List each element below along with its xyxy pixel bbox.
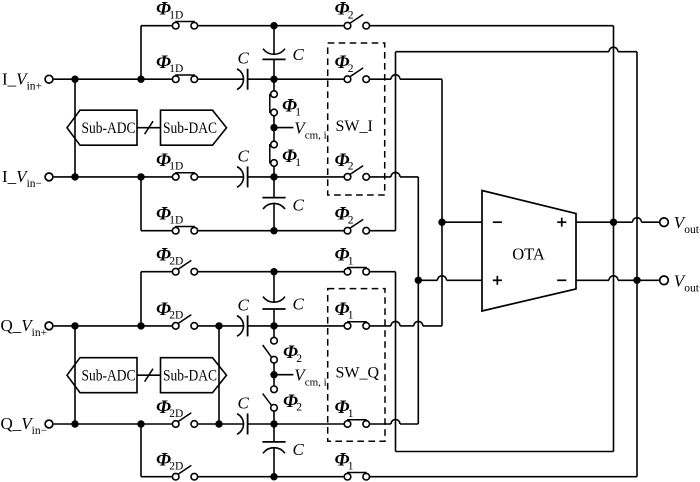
box SW_I (dashed) [328,43,385,195]
switch Φ1 S14 (SW_Q top, closed) [347,321,367,323]
wire vertical I_Vin+ to I_Vin- (ADC input) [74,79,76,177]
node I_Vin- summing [270,173,277,180]
svg-text:Sub-ADC: Sub-ADC [82,367,136,384]
svg-text:I_Vin−: I_Vin− [2,167,42,190]
svg-text:SW_Q: SW_Q [336,365,380,382]
switch Φ1D S9 (I rail4, closed) [175,226,195,228]
wire C4 bottom lead [273,203,275,230]
svg-text:1: 1 [295,106,301,118]
node Q rail1 / C5 junction [270,268,277,275]
svg-text:1: 1 [295,157,301,169]
node I_Vin+ summing [270,76,277,83]
switch Φ2 S16 (Q Vcm lower, open) [263,394,272,406]
svg-text:C: C [293,45,305,64]
wire Vout+ vertical [613,26,615,452]
bus slash (I) [145,121,153,134]
block Sub-DAC (I) [161,110,227,145]
terminal Vout- [660,276,669,285]
hop row2 over Vout+ vertical [609,47,618,52]
svg-text:1D: 1D [169,10,183,22]
node Q_Vin- / rail4 branch [137,420,144,427]
switch Φ1 S20 (Q rail4, closed) [347,472,367,474]
svg-text:2: 2 [348,161,354,173]
capacitor C4 (I- shunt) [263,203,285,209]
node Q_Vin- / DAC branch [215,420,222,427]
node Q_Vin+ / rail1 branch [137,322,144,329]
switch Φ2 S15 (Q Vcm upper, open) [263,345,272,357]
terminal Q_Vin- [45,420,53,428]
box SW_Q (dashed) [328,289,385,442]
wire Vcm,i stub (I) [274,127,293,129]
svg-text:SW_I: SW_I [336,118,373,135]
node I_Vin+ / Sub-ADC tap [71,76,78,83]
wire OTA noninverting input [418,279,437,281]
svg-text:2: 2 [348,10,354,22]
switch Φ2 S10 (I rail4, open) [350,219,363,228]
svg-text:Vout+: Vout+ [674,213,700,236]
svg-text:1: 1 [348,408,354,420]
switch Φ2D S17 (Q_Vin- row, open) [178,413,191,422]
node Q_Vin+ / ADC tap [71,322,78,329]
wire I_Vin+ row [54,78,172,80]
capacitor C1 (I+ shunt) [263,49,285,55]
node Vcm,i (I) [270,124,277,131]
symbol plus (OTA in+) [493,279,502,281]
svg-text:2D: 2D [169,256,183,268]
node I rail1 / C1 junction [270,22,277,29]
wire Q_Vin- row [54,423,172,425]
switch Φ1D S1 (I rail1, closed) [175,21,195,23]
capacitor C3 (I- series) [237,167,244,188]
block Sub-ADC (I) [67,110,137,145]
switch Φ2 S2 (I rail1, open) [350,14,363,23]
node OTA in+ junction [415,277,422,284]
wire C8 bottom lead [273,448,275,477]
capacitor C7 (Q- series) [237,414,244,435]
node Q_Vin+ / DAC branch [215,322,222,329]
wire vertical C (I_Vin- to Q_Vin-) [417,177,419,424]
switch Φ1 S18 (SW_Q bottom, closed) [347,419,367,421]
wire Q rail4 [141,476,172,478]
switch Φ2 S4 (SW_I top, open) [350,68,363,77]
wire Q rail1 (top feedback rail) [141,271,172,273]
hop Q_Vin- row over vertical A [391,420,400,425]
node Q_Vin- summing [270,420,277,427]
wire C4 top lead [273,177,275,198]
switch Φ2D S11 (Q rail1, open) [178,260,191,269]
svg-text:1: 1 [348,310,354,322]
wire Vout- line [576,279,609,281]
capacitor C2 (I+ series) [237,69,244,90]
hop Vout- line over Vout+ vertical [609,276,618,281]
wire routing Vout+ bottom [396,451,614,453]
wire Sub-ADC to Sub-DAC bus (I) [137,127,161,129]
node Vout- junction [633,277,640,284]
wire vertical from I rail1 to I_Vin+ node [140,26,142,79]
symbol minus (OTA in-) [493,221,502,223]
svg-text:C: C [293,196,305,215]
wire C5 bottom lead [273,309,275,326]
svg-text:C: C [238,49,250,68]
wire C1 top lead [273,26,275,54]
node Q_Vin- / ADC tap [71,420,78,427]
wire Q Vcm chain segments [273,326,275,338]
switch Φ1 S6 (I Vcm lower, closed) [269,144,271,164]
wire I rail4 [141,230,172,232]
switch Φ2 S8 (SW_I bottom, open) [350,166,363,175]
wire I_Vin- row [54,176,172,178]
switch Φ1D S7 (I_Vin- row, closed) [175,172,195,174]
wire I rail1 (top feedback rail) [141,25,172,27]
wire Sub-DAC output vertical (Q) [218,326,220,424]
svg-text:Sub-DAC: Sub-DAC [163,367,217,384]
node Vcm,i (Q) [270,371,277,378]
node Q rail4 / C8 junction [270,473,277,480]
node Q_Vin+ summing [270,322,277,329]
node OTA in- junction [438,219,445,226]
symbol plus (OTA out+) [557,221,566,223]
node I_Vin- / rail4 branch [137,173,144,180]
svg-text:C: C [293,295,305,314]
capacitor C6 (Q+ series) [237,316,244,337]
switch Φ1D S3 (I_Vin+ row, closed) [175,74,195,76]
wire I Vcm chain segments [273,79,275,91]
wire vertical Q_Vin- to rail4 [140,424,142,477]
terminal Q_Vin+ [45,322,53,330]
wire C1 bottom lead [273,59,275,79]
wire Vout+ line [576,221,633,223]
svg-text:2: 2 [296,402,302,414]
hop OTA in+ wire over vertical B [438,276,447,281]
svg-text:C: C [238,146,250,165]
wire vertical A lower (Q rail1 to routing) [395,272,397,452]
hop I_Vin+ row over vertical A [391,75,400,79]
wire Sub-ADC to Sub-DAC bus (Q) [137,374,161,376]
node I_Vin+ / rail1 branch [137,76,144,83]
hop Q_Vin+ row over vertical C [414,321,423,326]
svg-text:I_Vin+: I_Vin+ [2,69,42,92]
terminal Vout+ [660,218,669,227]
terminal I_Vin- [45,173,53,181]
wire C8 top lead [273,424,275,442]
block Sub-ADC (Q) [67,358,137,393]
svg-text:Vout−: Vout− [674,271,700,294]
svg-text:1: 1 [348,461,354,473]
svg-text:1: 1 [348,256,354,268]
wire vertical A upper (row2 to I rail4) [395,52,397,231]
wire vertical I_Vin- to rail4 [140,177,142,231]
svg-text:2: 2 [348,63,354,75]
svg-text:Q_Vin−: Q_Vin− [1,414,48,437]
wire row2 (Vout- feedback routing) [396,51,610,53]
capacitor C8 (Q- shunt) [263,448,285,454]
svg-text:C: C [238,394,250,413]
svg-text:Q_Vin+: Q_Vin+ [1,316,48,339]
wire OTA inverting input [442,221,482,223]
svg-text:Vcm, i: Vcm, i [294,119,326,142]
svg-text:C: C [238,295,250,314]
svg-text:2: 2 [348,215,354,227]
svg-text:2: 2 [296,353,302,365]
svg-text:2D: 2D [169,461,183,473]
switch Φ2D S13 (Q_Vin+ row, open) [178,315,191,324]
wire vertical from Q rail1 to Q_Vin+ node [140,272,142,326]
switch Φ1 S12 (Q rail1, closed) [347,267,367,269]
hop Vout+ line over Vout- vertical [633,218,642,223]
svg-text:1D: 1D [169,63,183,75]
node I_Vin- / ADC tap [71,173,78,180]
svg-text:Vcm, i: Vcm, i [294,366,326,389]
svg-text:OTA: OTA [512,245,545,264]
wire Vcm,i stub (Q) [274,374,293,376]
svg-text:1D: 1D [169,215,183,227]
switch Φ2D S19 (Q rail4, open) [178,465,191,474]
op-amp OTA U1 [482,191,576,312]
wire vertical B (I_Vin+ to Q_Vin+) [441,79,443,326]
wire C5 top lead [273,272,275,303]
terminal I_Vin+ [45,75,53,83]
svg-text:C: C [293,440,305,459]
hop Q_Vin+ row over vertical A [391,321,400,326]
svg-text:Sub-DAC: Sub-DAC [163,120,217,137]
switch Φ1 S5 (I Vcm upper, closed) [269,94,271,113]
svg-text:Sub-ADC: Sub-ADC [82,120,136,137]
svg-text:1D: 1D [169,161,183,173]
wire Q_Vin+ row [54,325,172,327]
node I rail4 / C4 junction [270,227,277,234]
wire vertical Q_Vin+ to Q_Vin- (ADC input) [74,326,76,424]
capacitor C5 (Q+ shunt) [263,297,285,303]
bus slash (Q) [145,369,153,382]
node Vout+ junction [610,219,617,226]
symbol minus (OTA out-) [557,279,566,281]
svg-text:2D: 2D [169,310,183,322]
svg-text:2D: 2D [169,408,183,420]
hop I_Vin- row over vertical A [391,172,400,177]
block Sub-DAC (Q) [161,358,227,393]
wire Vout- vertical [636,52,638,477]
